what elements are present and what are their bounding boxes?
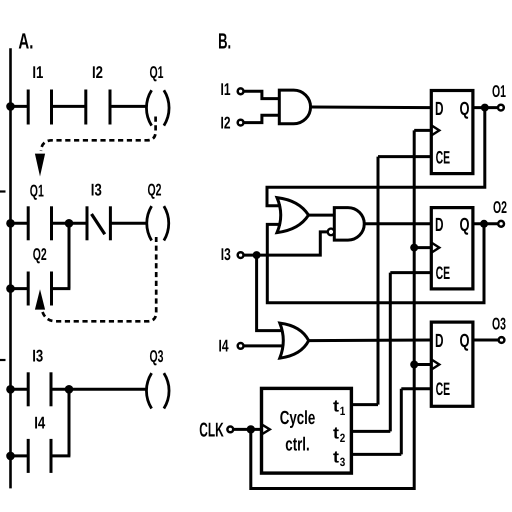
contact I2 (86, 90, 110, 125)
svg-text:I2: I2 (221, 113, 231, 132)
coil Q2 (147, 206, 169, 240)
wire t1 to riser (351, 403, 378, 406)
svg-text:Q1: Q1 (30, 182, 44, 201)
wire I4 to OR2 bottom input (244, 344, 283, 347)
rail tick mark 2 (0, 359, 6, 361)
wire FF2 Q to O2 (473, 222, 499, 225)
node: rail junction rung2 branch (6, 284, 15, 293)
wire t3 to riser (351, 453, 401, 456)
node: rail junction rung 2 (6, 219, 15, 228)
svg-text:A.: A. (18, 28, 33, 53)
wire clock stub FF3 (414, 363, 431, 366)
wire CE stub FF1 (378, 155, 431, 158)
AND gate (I1.I2) (279, 90, 310, 124)
wire node to I3 (69, 222, 87, 225)
wire rail to I1 (11, 105, 29, 108)
wire I2 to AND1 (244, 115, 280, 122)
wire rail to I4 contact (11, 454, 29, 457)
contact I4 (28, 439, 51, 473)
input terminal I3 (238, 252, 244, 258)
svg-text:3: 3 (340, 455, 346, 469)
svg-text:Q: Q (460, 331, 470, 352)
svg-text:t: t (333, 397, 339, 416)
wire rail to Q2 contact (11, 287, 29, 290)
node: O2 feedback junction (480, 220, 488, 228)
svg-text:Q3: Q3 (150, 347, 164, 366)
wire branch vertical rung3 (68, 389, 71, 456)
input terminal I1 (238, 88, 244, 94)
svg-text:D: D (435, 215, 444, 236)
contact Q1 (28, 206, 51, 240)
output terminal O3 (499, 337, 505, 343)
svg-text:I1: I1 (221, 80, 231, 99)
wire Q2 contact to branch vertical (52, 287, 71, 290)
svg-text:CE: CE (436, 379, 451, 399)
Cycle ctrl block (262, 388, 352, 473)
wire I1 to I2 (52, 105, 86, 108)
svg-text:CE: CE (436, 147, 451, 167)
contact I3 (rung 3) (28, 372, 51, 406)
output terminal O1 (498, 105, 504, 111)
node: FF3 clock junction (410, 361, 418, 369)
svg-text:B.: B. (218, 29, 231, 54)
D flip-flop FF3 (431, 322, 473, 406)
wire t2 riser (389, 273, 392, 432)
contact Q2 (seal-in branch) (28, 272, 51, 306)
D flip-flop FF1 (431, 91, 473, 174)
wire I3 branch to OR2 top input (257, 255, 282, 331)
svg-text:D: D (435, 331, 444, 352)
svg-text:I2: I2 (92, 63, 103, 82)
svg-text:O3: O3 (492, 314, 506, 333)
wire CE stub FF3 (401, 387, 431, 390)
FF2 clock triangle (431, 243, 439, 253)
svg-text:Q: Q (460, 215, 470, 236)
wire O1 feedback to OR1 top input (267, 108, 485, 206)
AND2 input bubble (328, 229, 335, 236)
wire t3 riser (400, 389, 403, 455)
FF1 clock triangle (431, 125, 439, 135)
svg-text:I4: I4 (34, 414, 45, 433)
svg-text:Q1: Q1 (150, 63, 164, 82)
node: rung3 branch junction (65, 385, 74, 394)
svg-text:I3: I3 (32, 347, 43, 366)
wire I1 to AND1 (244, 91, 280, 98)
OR gate OR1 (O1+O2) (277, 198, 309, 233)
Cycle ctrl clock triangle (262, 424, 270, 434)
svg-text:D: D (435, 99, 444, 120)
node: rail junction rung 3 (6, 385, 15, 394)
svg-text:t: t (333, 424, 339, 443)
svg-text:2: 2 (340, 431, 346, 445)
wire OR2 to FF3 D (309, 339, 432, 343)
wire I3 to coil Q2 (110, 222, 145, 225)
svg-text:O1: O1 (492, 82, 506, 101)
wire OR1 to AND2 (309, 214, 335, 217)
svg-text:ctrl.: ctrl. (285, 434, 309, 455)
OR gate OR2 (I3+I4) (280, 323, 309, 358)
svg-text:I3: I3 (91, 181, 102, 200)
wire I4 to branch vertical (51, 454, 70, 457)
wire branch vertical rung2 (68, 223, 71, 288)
wire clock stub FF2 (414, 246, 431, 249)
wire FF1 Q to O1 (473, 106, 498, 109)
wire AND1 to FF1 D (311, 106, 432, 110)
wire I2 to coil Q1 (110, 105, 146, 108)
svg-text:Cycle: Cycle (280, 408, 316, 429)
contact I3 normally-closed (87, 206, 110, 240)
svg-text:Q: Q (460, 99, 470, 120)
svg-text:I4: I4 (219, 337, 229, 356)
left power rail (9, 48, 12, 488)
wire O2 feedback to OR1 bottom input (267, 224, 484, 303)
coil Q3 (146, 373, 169, 408)
wire clock stub FF1 (414, 129, 431, 132)
svg-text:CLK: CLK (199, 420, 224, 442)
coil Q1 (146, 90, 169, 125)
wire Q1 contact to node (52, 222, 70, 225)
input terminal I4 (238, 343, 244, 349)
wire CE stub FF2 (390, 271, 431, 274)
D flip-flop FF2 (431, 208, 473, 289)
wire CLK to Cycle ctrl (233, 428, 261, 431)
wire CLK distribution riser (251, 130, 414, 488)
wire I3 to AND2 bubble (244, 232, 328, 255)
svg-text:CE: CE (436, 263, 451, 283)
output terminal O2 (498, 221, 504, 227)
input terminal CLK (227, 427, 233, 433)
svg-text:O2: O2 (493, 198, 507, 217)
node: I3 junction (253, 251, 261, 259)
node: rung2 branch junction (65, 219, 74, 228)
svg-text:I1: I1 (32, 63, 43, 82)
svg-text:t: t (333, 448, 339, 467)
node: rail junction rung3 branch (6, 452, 15, 461)
dashed transition arrow rung1 to rung2 (41, 117, 156, 152)
node: CLK junction (247, 425, 255, 433)
wire rail to I3 contact (11, 388, 29, 391)
svg-text:Q2: Q2 (33, 245, 47, 264)
node: O1 feedback junction (481, 104, 489, 112)
wire AND2 to FF2 D (364, 222, 431, 225)
contact I1 (28, 90, 51, 125)
wire t1 riser (377, 157, 380, 405)
svg-text:1: 1 (340, 404, 346, 418)
svg-text:Q2: Q2 (148, 181, 162, 200)
FF3 clock triangle (431, 359, 439, 369)
input terminal I2 (238, 120, 244, 126)
wire rail to Q1 contact (11, 222, 29, 225)
wire node to coil Q3 (69, 388, 146, 391)
AND gate AND2 (with inverted input) (334, 208, 364, 241)
wire FF3 Q to O3 (473, 339, 499, 342)
node: FF2 clock junction (410, 244, 418, 252)
wire t2 to riser (351, 430, 390, 433)
dashed transition arrow rung2 (up into Q2 contact) (35, 289, 45, 309)
svg-text:I3: I3 (221, 245, 231, 264)
rail tick mark 1 (0, 190, 6, 192)
node: rail junction rung 1 (6, 102, 15, 111)
wire I3 to node (51, 388, 69, 391)
